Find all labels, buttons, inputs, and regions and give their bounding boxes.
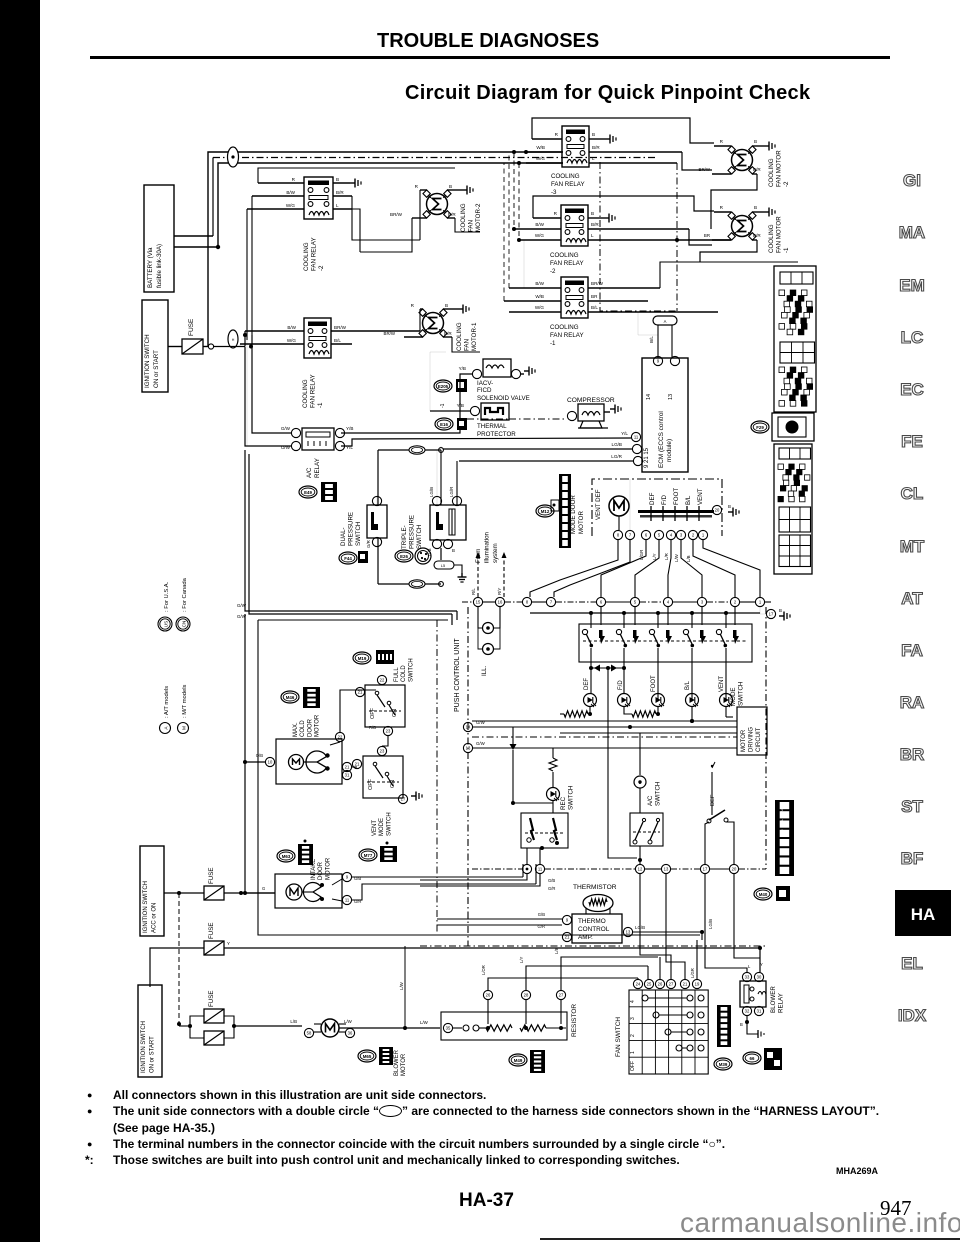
svg-text:ON or START: ON or START	[150, 1036, 156, 1073]
svg-text:FUSE: FUSE	[208, 990, 215, 1007]
svg-text:B/R: B/R	[448, 212, 456, 217]
switch box mode	[579, 624, 752, 662]
wire switch feed line	[530, 607, 760, 615]
svg-text:B/L: B/L	[685, 495, 692, 505]
svg-text:IACV-: IACV-	[477, 380, 493, 387]
svg-text:M12: M12	[541, 509, 550, 514]
left black margin bar	[0, 0, 40, 1242]
svg-text:B/W: B/W	[286, 190, 295, 195]
right margin section tabs	[899, 171, 925, 868]
oval E49	[299, 482, 337, 502]
svg-text:COOLING: COOLING	[550, 252, 579, 259]
svg-text:VENT: VENT	[372, 820, 378, 836]
switch DPS (dual-pressure)	[339, 496, 387, 564]
resistor R-led1	[560, 707, 592, 717]
wire frame dashdot	[600, 162, 677, 311]
svg-text:M65: M65	[363, 1054, 372, 1059]
svg-text:22: 22	[380, 678, 385, 683]
wire ignition to fuse	[168, 346, 208, 348]
ignition switch SW1 (ON or START)	[142, 300, 168, 392]
svg-text:4: 4	[630, 1000, 636, 1003]
compressor CP	[567, 397, 621, 428]
svg-text:DOOR: DOOR	[318, 861, 324, 880]
svg-text:-1: -1	[550, 340, 556, 347]
svg-text:VENT: VENT	[719, 676, 725, 692]
relay blower	[740, 962, 785, 1016]
svg-text:F/D: F/D	[661, 495, 668, 505]
svg-text:B: B	[445, 303, 448, 308]
svg-text:BR: BR	[900, 745, 925, 764]
wire DEF* left	[705, 822, 709, 864]
wire REC feed	[510, 727, 558, 805]
legend A/M	[160, 685, 189, 734]
svg-text:14: 14	[466, 725, 471, 730]
svg-text:L/W: L/W	[674, 553, 679, 562]
wire CF-2L pins	[247, 177, 361, 209]
motor blower	[290, 1019, 407, 1076]
svg-text:SWITCH: SWITCH	[355, 522, 362, 546]
svg-text:3: 3	[680, 533, 683, 538]
led F/D	[618, 668, 631, 707]
svg-text:26: 26	[658, 982, 663, 987]
svg-text:SOLENOID VALVE: SOLENOID VALVE	[477, 395, 530, 402]
svg-text:R/B: R/B	[369, 725, 376, 730]
svg-text:OFF: OFF	[630, 1061, 636, 1071]
svg-text:35: 35	[446, 1026, 451, 1031]
svg-text:-2: -2	[783, 181, 790, 187]
svg-text:32: 32	[745, 1009, 750, 1014]
svg-text:SWITCH: SWITCH	[738, 682, 745, 706]
svg-text:CONTROL: CONTROL	[578, 926, 610, 933]
svg-text:RA: RA	[900, 693, 925, 712]
wire G/W bus down	[237, 450, 457, 625]
svg-text:B: B	[728, 504, 731, 509]
svg-text:G/R: G/R	[366, 540, 371, 548]
svg-text:REC: REC	[560, 796, 567, 810]
svg-text:DOOR: DOOR	[307, 718, 313, 737]
pin 17b	[700, 864, 709, 873]
pin 12	[635, 864, 644, 873]
svg-text:PUSH CONTROL UNIT: PUSH CONTROL UNIT	[454, 638, 461, 712]
svg-text:F44: F44	[344, 556, 352, 561]
svg-text:R: R	[554, 211, 558, 216]
svg-text:RESISTOR: RESISTOR	[571, 1004, 578, 1037]
motor mode M	[595, 489, 629, 520]
wire illumination arrows	[471, 531, 507, 597]
svg-text:COOLING: COOLING	[460, 203, 467, 232]
relay AC (A/C relay)	[281, 426, 354, 478]
svg-text:M46: M46	[286, 695, 295, 700]
oval M63	[277, 840, 313, 866]
svg-text:7: 7	[550, 600, 553, 605]
svg-text:IGNITION SWITCH: IGNITION SWITCH	[143, 881, 149, 933]
svg-text:58: 58	[307, 1031, 312, 1036]
svg-text:13: 13	[664, 867, 669, 872]
svg-text:4: 4	[667, 600, 670, 605]
svg-text:B: B	[592, 132, 595, 137]
svg-text:THERMISTOR: THERMISTOR	[573, 884, 617, 891]
wire M-1L	[384, 303, 480, 352]
svg-text:9: 9	[657, 359, 660, 364]
page header title	[377, 30, 617, 53]
svg-text:O/B: O/B	[256, 753, 263, 758]
svg-text:28: 28	[524, 993, 529, 998]
wire PCU right edge	[765, 607, 767, 869]
wire CF-2L rails	[247, 168, 455, 340]
svg-text:B/W: B/W	[535, 281, 544, 286]
svg-text:COLD: COLD	[300, 720, 306, 737]
relay CF-1L	[302, 318, 331, 408]
wire CF-3R pins	[526, 118, 714, 170]
svg-text:FAN RELAY: FAN RELAY	[550, 260, 584, 267]
wire PCU top dashdot	[462, 601, 771, 603]
svg-text:BF: BF	[901, 849, 924, 868]
mode pins	[613, 504, 739, 540]
connector strip fanswitch	[714, 1005, 732, 1070]
svg-text:L/OR: L/OR	[481, 965, 486, 975]
svg-text:BR: BR	[704, 233, 710, 238]
svg-text:ON: ON	[390, 780, 396, 788]
svg-text:LC: LC	[901, 328, 924, 347]
svg-text:SWITCH: SWITCH	[655, 782, 662, 806]
led VENT	[720, 694, 733, 708]
svg-text:FUSE: FUSE	[208, 867, 215, 884]
svg-text:SWITCH: SWITCH	[416, 525, 423, 549]
fan motor M-1L	[419, 309, 478, 351]
label intake door motor	[311, 857, 331, 880]
svg-text:FOOT: FOOT	[673, 488, 680, 505]
module ECM	[631, 358, 688, 472]
pin row bottom left	[522, 864, 544, 873]
page number HA-37	[459, 1190, 514, 1212]
motor max-cold	[245, 732, 357, 784]
svg-text:BR/W: BR/W	[384, 331, 396, 336]
svg-text:M39: M39	[719, 1062, 728, 1067]
svg-text:FICD: FICD	[477, 387, 492, 394]
resistor R-led2	[624, 707, 733, 723]
svg-text:L/GR: L/GR	[690, 968, 695, 978]
switch TPS (triple-pressure)	[395, 487, 466, 564]
pin 14 PCU	[463, 720, 485, 732]
svg-text:L5: L5	[441, 564, 445, 568]
module thermo amp	[562, 914, 645, 943]
svg-text:LG/B: LG/B	[708, 919, 713, 929]
svg-text:G/B: G/B	[538, 912, 545, 917]
svg-text:BATTERY (Via: BATTERY (Via	[147, 247, 154, 288]
svg-text:5: 5	[658, 533, 661, 538]
fan motor M-2R	[728, 146, 790, 187]
svg-text:36: 36	[348, 1031, 353, 1036]
svg-text:: For U.S.A.: : For U.S.A.	[164, 581, 170, 612]
svg-text:IGNITION SWITCH: IGNITION SWITCH	[141, 1021, 147, 1073]
svg-text:B/W: B/W	[535, 222, 544, 227]
wire pcu outs down	[420, 874, 760, 980]
oval M46	[281, 687, 320, 708]
svg-text:system: system	[492, 543, 499, 563]
svg-text:L/B: L/B	[290, 1019, 297, 1024]
svg-text:L/B: L/B	[686, 555, 691, 562]
svg-text:G/R: G/R	[548, 886, 555, 891]
oval M77	[359, 842, 397, 863]
svg-text:Y/L: Y/L	[621, 431, 628, 436]
svg-text:CIRCUIT: CIRCUIT	[756, 727, 762, 752]
svg-text:B: B	[591, 211, 594, 216]
thermal protector TP	[435, 403, 516, 438]
led B/L	[686, 694, 699, 708]
svg-text:MOTOR: MOTOR	[315, 714, 321, 737]
svg-text:US: US	[164, 621, 169, 627]
connector oval J2	[228, 330, 238, 348]
svg-text:17: 17	[703, 867, 708, 872]
svg-text:MOTOR: MOTOR	[741, 729, 747, 752]
svg-text:FAN: FAN	[468, 220, 475, 232]
svg-text:30: 30	[757, 975, 762, 980]
svg-text:IGNITION SWITCH: IGNITION SWITCH	[144, 334, 151, 388]
wire AC relay feeds	[245, 335, 291, 446]
svg-text:11: 11	[634, 435, 639, 440]
junction row pins	[473, 597, 764, 606]
wire intake feeds	[245, 864, 540, 900]
svg-text:B/L: B/L	[591, 305, 598, 310]
svg-text:-2: -2	[318, 265, 325, 271]
led FOOT	[652, 694, 665, 708]
svg-text:27: 27	[559, 993, 564, 998]
svg-text:BR/W: BR/W	[591, 281, 604, 286]
svg-text:B: B	[754, 205, 757, 210]
svg-text:MOTOR: MOTOR	[325, 857, 331, 880]
svg-text:G/B: G/B	[548, 878, 555, 883]
wire fanswitch right	[0, 0, 1, 1]
wire fan switch feeds	[638, 940, 697, 980]
connector oval L5	[434, 561, 467, 582]
lamp ILL1	[478, 607, 494, 634]
module motor driving circuit	[737, 707, 767, 755]
svg-text:8: 8	[617, 533, 620, 538]
svg-text:L/W: L/W	[344, 1019, 353, 1024]
svg-text:G: G	[262, 886, 265, 891]
svg-text:M77: M77	[364, 853, 373, 858]
svg-text:E16: E16	[440, 422, 448, 427]
svg-text:L/GR: L/GR	[639, 550, 644, 560]
fuse F2	[164, 867, 275, 900]
mode position bar	[638, 488, 714, 521]
svg-text:6: 6	[600, 600, 603, 605]
svg-text:FAN MOTOR: FAN MOTOR	[776, 216, 783, 253]
wire compressor feed	[467, 418, 567, 420]
module mode-door-motor box	[592, 479, 722, 536]
svg-text:PROTECTOR: PROTECTOR	[477, 431, 516, 438]
svg-text:15: 15	[476, 600, 481, 605]
svg-text:M49: M49	[514, 1058, 523, 1063]
svg-text:L: L	[336, 203, 339, 208]
svg-text:: For Canada: : For Canada	[182, 577, 188, 612]
svg-text:R: R	[720, 139, 724, 144]
solenoid IACV-FICD	[434, 359, 535, 402]
wire ECM inputs	[341, 431, 633, 461]
wire max-cold up	[340, 690, 376, 732]
svg-text:22: 22	[338, 735, 343, 740]
svg-text:F29: F29	[756, 425, 764, 430]
wire M-2R	[699, 139, 775, 229]
wire thermal feed	[430, 352, 470, 411]
oval M19b	[353, 650, 394, 664]
svg-text:M63: M63	[282, 854, 291, 859]
connector F29 block	[751, 413, 814, 441]
svg-text:W/G: W/G	[286, 203, 296, 208]
section subtitle	[405, 82, 810, 105]
led DEF	[584, 668, 597, 707]
svg-text:FAN SWITCH: FAN SWITCH	[615, 1017, 622, 1057]
thermistor TH	[573, 884, 617, 914]
svg-text:G/W: G/W	[237, 603, 247, 608]
svg-text:LG/R: LG/R	[611, 454, 622, 459]
connector oval A	[638, 312, 677, 358]
svg-text:MOTOR: MOTOR	[401, 1053, 407, 1076]
svg-text:COOLING: COOLING	[302, 379, 309, 408]
svg-text:21: 21	[345, 765, 350, 770]
wire ignition bus split	[214, 331, 304, 349]
svg-text:COOLING: COOLING	[551, 173, 580, 180]
svg-text:LG/B: LG/B	[429, 487, 434, 497]
wire ACC vertical	[177, 831, 241, 1026]
svg-text:FAN RELAY: FAN RELAY	[310, 374, 317, 408]
svg-text:4: 4	[670, 533, 673, 538]
svg-text:13: 13	[466, 746, 471, 751]
svg-text:BR/W: BR/W	[334, 325, 347, 330]
svg-text:Y/B: Y/B	[459, 366, 466, 371]
svg-text:LG/R: LG/R	[449, 487, 454, 497]
folio 947	[880, 1196, 912, 1221]
connector strip PCU right	[775, 800, 794, 876]
svg-text:SWITCH: SWITCH	[568, 786, 575, 810]
svg-text:L/B: L/B	[554, 948, 559, 954]
svg-text:Y/B: Y/B	[346, 426, 353, 431]
wire pressure rail bottom	[378, 538, 443, 588]
relay CF-2L	[303, 177, 333, 271]
svg-text:11: 11	[538, 867, 543, 872]
svg-text:EM: EM	[899, 276, 925, 295]
svg-text:B: B	[452, 548, 455, 553]
svg-text:FUSE: FUSE	[208, 922, 215, 939]
wire pcu to blower relay	[0, 0, 1, 1]
svg-text:CL: CL	[901, 484, 924, 503]
wire M-2L	[360, 184, 480, 252]
fuse F1	[182, 318, 214, 354]
svg-text:-1: -1	[783, 247, 790, 253]
svg-text:A: A	[164, 726, 170, 730]
wire CF-2R pins	[512, 196, 731, 245]
svg-text:W/B: W/B	[536, 145, 545, 150]
svg-text:3: 3	[630, 1017, 636, 1020]
svg-text:FULL: FULL	[394, 667, 400, 682]
svg-text:BR/W: BR/W	[699, 167, 711, 172]
svg-text:B/L: B/L	[685, 680, 691, 690]
connector oval J1	[228, 147, 239, 167]
connector strip mode	[536, 474, 571, 548]
module fan switch	[615, 990, 708, 1074]
labels mode outputs	[584, 675, 745, 706]
svg-text:: A/T models: : A/T models	[164, 686, 170, 718]
wire CF-1R pins	[504, 152, 798, 312]
svg-text:L/W: L/W	[399, 981, 404, 990]
svg-text:13: 13	[668, 394, 674, 400]
watermark	[680, 1207, 960, 1239]
svg-text:L: L	[748, 964, 751, 969]
fuse F4b	[204, 1031, 224, 1045]
svg-text:B: B	[336, 177, 339, 182]
oval M66	[743, 1048, 782, 1070]
svg-text:FAN RELAY: FAN RELAY	[311, 237, 318, 271]
svg-text:ILL.: ILL.	[481, 665, 488, 676]
svg-text:ECM (ECCS control: ECM (ECCS control	[658, 411, 665, 468]
svg-text:EL: EL	[901, 954, 923, 973]
svg-text:17: 17	[401, 797, 406, 802]
wire thermo feeds	[437, 869, 562, 937]
svg-text:fusible link-30A): fusible link-30A)	[156, 244, 163, 288]
svg-text:25: 25	[647, 982, 652, 987]
svg-text:THERMO: THERMO	[578, 918, 606, 925]
junction pins ECM top	[653, 356, 679, 365]
wire AC out	[609, 669, 666, 864]
switch DEF*	[707, 762, 734, 864]
pin 20	[729, 864, 738, 873]
svg-text:MODE DOOR: MODE DOOR	[570, 495, 577, 534]
svg-text:FAN: FAN	[464, 339, 471, 351]
switch vent-mode	[342, 746, 422, 836]
svg-text:5: 5	[634, 600, 637, 605]
bottom rule	[540, 1238, 960, 1240]
wire motor to bar	[619, 479, 630, 530]
wire bus top-1	[208, 150, 563, 346]
svg-text:G/W: G/W	[281, 426, 291, 431]
relay CF-2R	[550, 205, 588, 275]
svg-text:-2: -2	[550, 268, 556, 275]
wire vent-mode links	[340, 736, 388, 775]
svg-text:33: 33	[745, 975, 750, 980]
wire switch verticals	[591, 607, 735, 628]
svg-text:THERMAL: THERMAL	[477, 423, 507, 430]
svg-text:1: 1	[759, 600, 762, 605]
svg-text:B: B	[754, 139, 757, 144]
battery B1	[144, 185, 174, 292]
svg-text:COLD: COLD	[401, 665, 407, 682]
svg-text:COOLING: COOLING	[303, 242, 310, 271]
wire REC out	[527, 848, 540, 864]
fan motor M-1R	[728, 212, 790, 253]
svg-text:31: 31	[345, 773, 350, 778]
svg-text:COMPRESSOR: COMPRESSOR	[567, 397, 615, 404]
relay CF-3R	[551, 126, 589, 196]
svg-text:23: 23	[380, 749, 385, 754]
svg-text:INTAKE: INTAKE	[311, 859, 317, 880]
wire TPS up	[437, 450, 457, 505]
svg-text:9 21 15: 9 21 15	[644, 447, 650, 468]
svg-text:-1: -1	[317, 402, 324, 408]
svg-text:B/R: B/R	[592, 145, 600, 150]
oval M49	[509, 1050, 545, 1073]
wire CF-R vertical rails	[512, 150, 562, 288]
svg-text:L: L	[591, 233, 594, 238]
svg-text:RELAY: RELAY	[314, 458, 321, 478]
svg-text:B/R: B/R	[591, 222, 599, 227]
svg-text:27: 27	[669, 982, 674, 987]
svg-text:7: 7	[629, 533, 632, 538]
pin 13b	[661, 864, 670, 873]
ignition switch SW3 (ON or START)	[138, 985, 162, 1077]
svg-text:MOTOR-1: MOTOR-1	[471, 322, 478, 351]
svg-text:DEF: DEF	[649, 492, 656, 505]
svg-text:TRIPLE-: TRIPLE-	[401, 525, 408, 549]
